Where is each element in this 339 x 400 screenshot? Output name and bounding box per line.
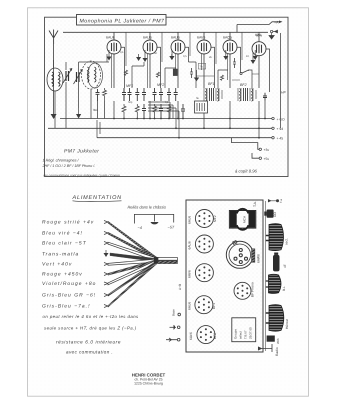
- wire fan W8: [42, 260, 157, 298]
- terminal bus1: [272, 117, 285, 121]
- ground (output): [269, 33, 274, 39]
- wire bus1: [60, 118, 272, 120]
- svg-text:6AV6: 6AV6: [197, 36, 205, 40]
- socket X7 phono: [234, 282, 255, 299]
- ground (left mid 1): [51, 114, 56, 119]
- svg-text:BF1: BF1: [212, 303, 216, 309]
- node output terminal: [270, 30, 277, 33]
- ground (V4 grid): [194, 70, 199, 81]
- svg-text:6AU6: 6AU6: [171, 36, 180, 40]
- socket X3: [188, 264, 214, 282]
- wire chassis bracket: [134, 214, 173, 223]
- note lower 3: [56, 339, 121, 344]
- svg-text:6AU6: 6AU6: [188, 241, 192, 249]
- coil L1 oscillator: [47, 60, 63, 91]
- note line 2: [42, 164, 96, 168]
- svg-text:à copît 8.96: à copît 8.96: [235, 169, 258, 174]
- label -5T: [168, 226, 175, 230]
- svg-text:6AV6: 6AV6: [188, 270, 192, 278]
- terminal left T1: [172, 309, 181, 316]
- wire interstage mid: [107, 54, 252, 88]
- wire interstage extra: [196, 74, 259, 80]
- svg-text:60%: 60%: [256, 34, 262, 38]
- svg-text:BF2: BF2: [213, 333, 217, 339]
- tube V2: [143, 32, 157, 88]
- svg-text:BF2: BF2: [240, 83, 247, 87]
- svg-text:Bleu viré −4!: Bleu viré −4!: [42, 231, 83, 237]
- resistor R9 box: [173, 69, 177, 76]
- label MF1: [126, 84, 133, 88]
- tube V6: [252, 32, 266, 88]
- schematic frame: [45, 17, 289, 176]
- wire fan W6: [42, 259, 157, 277]
- node junctions bus: [113, 118, 266, 139]
- tube V1: [106, 32, 121, 88]
- svg-text:T.A.: T.A.: [253, 201, 257, 207]
- note a copier: [235, 169, 258, 174]
- capacitor C8: [174, 88, 178, 101]
- svg-text:T.B.67: T.B.67: [244, 330, 248, 339]
- capacitor C6: [159, 88, 163, 101]
- socket X1: [188, 210, 218, 228]
- ground (mid 2): [169, 54, 174, 60]
- label rotated A+B: [178, 284, 182, 290]
- svg-text:2HF / 1 GO / 2 BF / 1BF Phono: 2HF / 1 GO / 2 BF / 1BF Phono /.: [42, 164, 96, 168]
- svg-text:sélect: sélect: [239, 331, 243, 339]
- svg-text:+3v: +3v: [264, 148, 270, 152]
- note line 1: [43, 159, 80, 163]
- address block: [132, 372, 166, 385]
- chassis box: [186, 200, 266, 352]
- tube V5: [223, 32, 237, 88]
- connector herout: [266, 305, 289, 332]
- terminal left T2: [170, 325, 181, 330]
- svg-text:6AU6: 6AU6: [106, 36, 115, 40]
- wire bus3: [97, 137, 272, 139]
- svg-text:6AU6: 6AU6: [188, 302, 192, 310]
- svg-text:0,5: 0,5: [183, 55, 187, 58]
- svg-text:6AU6: 6AU6: [143, 36, 152, 40]
- label BF1: [208, 82, 215, 86]
- svg-text:Reliés dans le châssis: Reliés dans le châssis: [128, 205, 167, 210]
- svg-text:résistance 6.0 intérieure: résistance 6.0 intérieure: [56, 339, 121, 344]
- svg-text:BF1: BF1: [208, 82, 215, 86]
- svg-text:les commutations sont pas indi: les commutations sont pas indiquées / ju…: [44, 173, 121, 177]
- capacitor C3: [135, 88, 139, 101]
- resistor R1 row2: [122, 104, 126, 119]
- ground (mid 1): [136, 54, 141, 61]
- svg-text:+ 45: + 45: [277, 137, 284, 141]
- wire fan W9: [42, 261, 157, 310]
- capacitor C12 coupling: [233, 58, 236, 68]
- wire fan W7: [42, 260, 157, 287]
- svg-text:6AQ5: 6AQ5: [223, 36, 232, 40]
- svg-text:Gris-Bleu GR −6!: Gris-Bleu GR −6!: [42, 293, 96, 299]
- svg-text:+A: +A: [274, 21, 279, 25]
- wire plate leads: [121, 47, 270, 92]
- wire cathode pairs: [112, 54, 228, 88]
- svg-text:Vert +40v: Vert +40v: [42, 262, 72, 268]
- resistor R6 grid: [156, 72, 159, 77]
- wire top bus: [63, 31, 268, 33]
- svg-text:50p: 50p: [128, 101, 133, 104]
- title ALIMENTATION: [72, 195, 122, 202]
- svg-text:Hérout: Hérout: [285, 319, 289, 329]
- socket X4: [188, 296, 217, 314]
- label PM7 Jukketer: [64, 149, 99, 155]
- ground (left mid 2): [76, 108, 81, 119]
- ground (V6 cathode): [251, 52, 256, 64]
- svg-text:Gris-Bleu −7a.!: Gris-Bleu −7a.!: [42, 304, 91, 310]
- svg-text:avec commutation .: avec commutation .: [66, 349, 113, 354]
- svg-text:6AV6: 6AV6: [189, 332, 193, 340]
- capacitor C10 row2: [181, 104, 185, 119]
- svg-text:B.L: B.L: [282, 286, 286, 291]
- note lower 4: [66, 349, 113, 354]
- label thump box: [198, 63, 205, 69]
- capacitor C5: [153, 88, 157, 101]
- terminal antenna rear: [268, 199, 283, 203]
- svg-text:1225 Chêne-Bourg: 1225 Chêne-Bourg: [134, 382, 163, 386]
- svg-text:Trans-matla: Trans-matla: [42, 252, 79, 258]
- svg-text:Rouge striié +4v: Rouge striié +4v: [42, 220, 94, 226]
- wire to +A terminal: [237, 21, 283, 33]
- ground (V2 cathode): [143, 50, 148, 62]
- terminal +5v: [252, 153, 269, 161]
- transformer T2 output: [204, 88, 222, 101]
- socket X2: [188, 235, 214, 253]
- resistor R3 row2: [153, 104, 157, 119]
- switch S1: [240, 70, 249, 75]
- capacitor C9 HP: [263, 91, 286, 101]
- capacitor C7: [167, 88, 171, 101]
- capacitor CV1 tuning: [63, 68, 72, 83]
- svg-text:0,1: 0,1: [120, 51, 124, 54]
- svg-text:25/37.60: 25/37.60: [249, 327, 253, 339]
- terminal bus2: [272, 127, 284, 131]
- antenna: [49, 30, 58, 115]
- svg-text:Bleu clair −5T: Bleu clair −5T: [42, 241, 87, 247]
- wire right feed: [280, 33, 282, 128]
- ground (V1 cathode): [107, 50, 112, 61]
- transformer chassis: [229, 209, 255, 230]
- connector BL: [266, 274, 286, 293]
- wire staircase nest: [97, 102, 179, 138]
- svg-text:MF2: MF2: [213, 215, 217, 222]
- note lower 2: [44, 326, 137, 331]
- capacitor C1: [122, 88, 126, 101]
- ground (V5 cathode): [253, 50, 258, 60]
- svg-text:−4: −4: [138, 226, 142, 230]
- svg-text:+5v: +5v: [264, 157, 270, 161]
- svg-text:Monophonia PL Jukketer / PM7: Monophonia PL Jukketer / PM7: [80, 18, 166, 24]
- capacitor C4: [142, 88, 146, 101]
- label relies chassis: [128, 205, 167, 210]
- label values misc: [120, 51, 249, 104]
- svg-text:A+B: A+B: [178, 284, 182, 290]
- capacitor C15 osc: [96, 89, 100, 101]
- svg-text:BF Phono: BF Phono: [251, 282, 255, 297]
- resistor R4 row2: [167, 104, 171, 119]
- resistor R7 grid: [220, 75, 223, 80]
- resistor R2 row2: [135, 104, 139, 119]
- label MF2: [157, 83, 164, 87]
- svg-text:0,1: 0,1: [165, 101, 169, 104]
- svg-text:GO: GO: [273, 212, 277, 217]
- connector secteur: [266, 224, 289, 251]
- transformer T3 output: [238, 88, 256, 101]
- svg-text:W.B: W.B: [276, 338, 280, 344]
- ground (antenna): [51, 114, 57, 119]
- resistor R8 osc: [103, 88, 107, 101]
- svg-text:1 Régl. chromagnes /: 1 Régl. chromagnes /: [43, 159, 80, 163]
- wire fan W5: [42, 259, 157, 268]
- connector knob GO: [264, 210, 277, 218]
- note line 3: [44, 173, 121, 177]
- svg-text:6AW8: 6AW8: [257, 254, 261, 263]
- svg-text:ALIMENTATION: ALIMENTATION: [72, 195, 122, 201]
- svg-text:on peut relier le 4 6o et le +: on peut relier le 4 6o et le +-t2o les d…: [43, 314, 140, 319]
- wire fan W1: [42, 220, 157, 261]
- node bundle tip: [154, 257, 160, 264]
- svg-text:PM7 Jukketer: PM7 Jukketer: [64, 149, 99, 155]
- svg-text:seule source + HT, dré que les: seule source + HT, dré que les Z (−Pa.): [44, 326, 137, 331]
- ground (V3 cathode): [170, 50, 175, 60]
- label 9ko: [93, 108, 98, 112]
- label T.A.: [253, 201, 257, 207]
- capacitor C14 row2: [159, 104, 163, 119]
- svg-text:HP: HP: [281, 91, 286, 95]
- transformer T1 dashed: [82, 61, 103, 89]
- title box: [77, 15, 167, 26]
- socket X5: [189, 326, 217, 344]
- svg-text:−5T: −5T: [168, 226, 175, 230]
- label BF2: [240, 83, 247, 87]
- socket X6 big: [226, 241, 260, 269]
- terminal left T3: [166, 338, 180, 341]
- capacitor C13 row2: [142, 104, 146, 119]
- capacitor C11 coupling: [190, 68, 193, 78]
- wire cable to chassis: [158, 258, 178, 264]
- resistor R5 grid: [124, 70, 127, 75]
- ground (chassis): [151, 222, 159, 224]
- tube V3: [171, 32, 185, 88]
- fuse F1: [273, 253, 287, 272]
- label -4: [138, 226, 142, 230]
- svg-text:Base: Base: [172, 309, 176, 316]
- svg-text:Groupe: Groupe: [234, 329, 238, 339]
- label 60pc: [256, 34, 262, 38]
- capacitor CV2 tuning: [74, 69, 83, 84]
- svg-text:Th: Th: [199, 65, 203, 69]
- svg-text:MCA: MCA: [243, 215, 247, 223]
- svg-text:4F: 4F: [283, 264, 287, 268]
- transformer T4 box: [195, 101, 208, 113]
- wire fan W4: [42, 250, 157, 262]
- wire verticals to bus: [114, 101, 265, 138]
- terminal bus3: [272, 137, 284, 141]
- wire fan W3: [42, 241, 157, 262]
- svg-text:sect.: sect.: [285, 238, 289, 245]
- arrow radio: [258, 344, 279, 356]
- svg-text:+ 94: + 94: [277, 127, 284, 131]
- capacitor C2: [128, 88, 132, 101]
- tube V4: [197, 32, 211, 88]
- svg-text:6AU6: 6AU6: [188, 216, 192, 224]
- wire bus2: [48, 127, 272, 129]
- svg-text:Rouge +450v: Rouge +450v: [42, 272, 83, 278]
- svg-text:T.a: T.a: [279, 199, 283, 203]
- ground (V4 cathode): [223, 50, 228, 60]
- wire bus ticks: [126, 32, 242, 66]
- wire fan W2: [42, 231, 157, 262]
- selector block: [232, 318, 256, 342]
- note lower 1: [43, 314, 140, 319]
- svg-text:Violet/Rouge +8o: Violet/Rouge +8o: [42, 281, 96, 287]
- wire interstage left: [55, 62, 107, 128]
- svg-text:Radio: Radio: [275, 347, 279, 356]
- wire step to +3v: [231, 138, 269, 152]
- connector WB: [267, 336, 280, 345]
